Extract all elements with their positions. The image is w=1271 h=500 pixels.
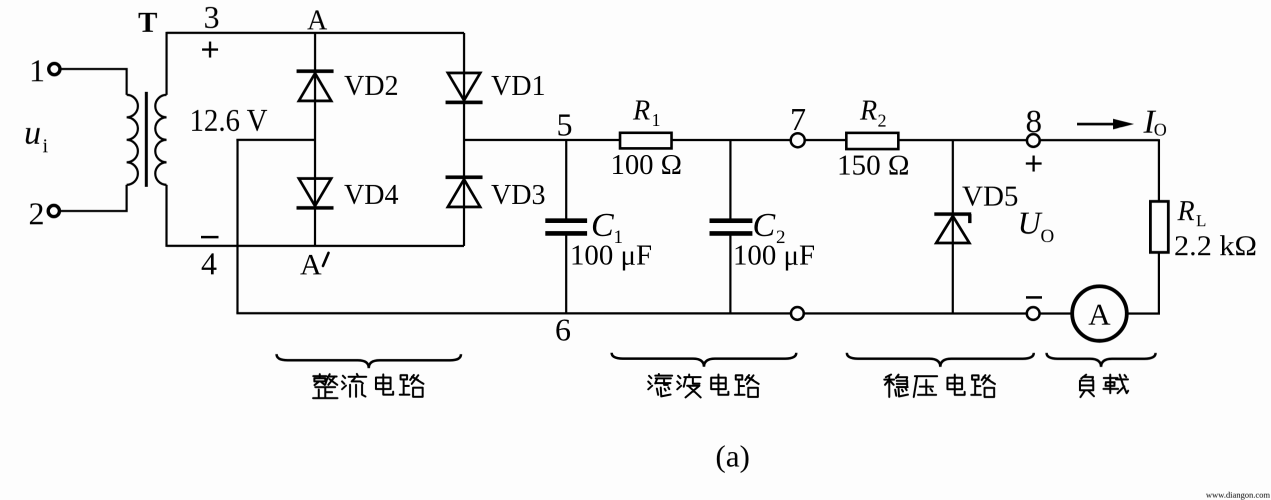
svg-text:A: A — [307, 5, 328, 36]
brace filter section — [612, 353, 797, 367]
wire ammeter to node 8-bottom — [1040, 312, 1073, 314]
svg-text:VD3: VD3 — [491, 180, 545, 211]
wire node 8 to right corner — [1040, 139, 1159, 141]
wire VD2/VD4 junction to left — [236, 139, 315, 141]
svg-text:VD1: VD1 — [491, 71, 545, 102]
label load section (fuzai) — [1080, 375, 1128, 397]
svg-text:U: U — [1018, 205, 1043, 241]
svg-text:150 Ω: 150 Ω — [837, 151, 910, 182]
svg-text:R: R — [1177, 196, 1195, 227]
svg-text:100 Ω: 100 Ω — [611, 150, 683, 181]
wire bridge branch B vertical — [463, 33, 465, 246]
brace regulator section — [847, 353, 1034, 367]
zener diode VD5 — [934, 214, 971, 243]
label filter section (lvbo dianlu) — [648, 374, 758, 397]
svg-text:VD4: VD4 — [344, 180, 398, 211]
svg-text:L: L — [1196, 211, 1206, 230]
brace load section — [1047, 353, 1156, 367]
secondary winding of transformer T — [155, 95, 166, 185]
svg-text:7: 7 — [790, 101, 806, 137]
primary winding of transformer T — [127, 95, 138, 185]
svg-text:www.diangon.com: www.diangon.com — [1206, 490, 1271, 500]
terminal 2 — [48, 205, 59, 216]
svg-text:u: u — [24, 115, 41, 152]
svg-text:3: 3 — [204, 0, 220, 35]
svg-text:100 μF: 100 μF — [570, 240, 652, 271]
svg-text:1: 1 — [29, 52, 45, 88]
svg-text:100 μF: 100 μF — [733, 240, 815, 271]
wire bottom rail 4 to A-prime — [167, 245, 465, 247]
svg-text:O: O — [1041, 226, 1055, 247]
capacitor C2 — [710, 221, 753, 234]
resistor R2 — [846, 133, 898, 149]
svg-text:8: 8 — [1026, 104, 1043, 140]
node 7 bottom circle — [791, 307, 804, 320]
wire secondary left side upper — [165, 32, 167, 95]
diode VD2 — [297, 71, 334, 101]
node 7 circle — [791, 133, 805, 147]
svg-text:2: 2 — [29, 195, 45, 231]
svg-text:6: 6 — [555, 311, 571, 347]
transformer core — [145, 92, 148, 187]
svg-text:5: 5 — [557, 106, 573, 142]
svg-text:A: A — [1088, 297, 1111, 332]
resistor RL — [1150, 201, 1168, 252]
wire secondary left side lower — [165, 185, 167, 247]
wire C1 down to bottom bus — [565, 235, 567, 313]
svg-text:R: R — [859, 96, 877, 127]
diode VD4 — [297, 178, 334, 207]
node 8 circle — [1027, 134, 1040, 147]
wire negative vertical down — [236, 139, 238, 313]
diode VD1 — [446, 73, 483, 102]
wire bottom bus main — [236, 312, 790, 314]
plus sign secondary — [202, 48, 218, 50]
arrow IO — [1077, 123, 1117, 126]
wire R2 to node 8 — [898, 139, 1027, 141]
wire terminal1 to primary — [61, 69, 127, 95]
terminal 1 — [49, 63, 60, 74]
svg-text:VD2: VD2 — [344, 71, 398, 102]
svg-text:C: C — [591, 207, 614, 244]
wire node 7 to R2 — [805, 139, 846, 141]
diode VD3 — [446, 177, 483, 207]
svg-text:i: i — [43, 135, 49, 157]
wire R1 to node 7 — [672, 139, 791, 141]
svg-text:1: 1 — [652, 110, 661, 130]
svg-text:12.6 V: 12.6 V — [190, 102, 268, 138]
svg-text:2: 2 — [878, 111, 887, 131]
wire bottom bus right segment — [804, 312, 1027, 314]
node 8 bottom circle — [1027, 307, 1040, 320]
minus sign output — [1026, 296, 1042, 299]
wire C2 down to bottom bus — [729, 236, 731, 314]
svg-text:R: R — [632, 95, 650, 126]
wire mid rail down to VD5 — [952, 139, 954, 313]
capacitor C1 — [545, 221, 587, 234]
svg-text:T: T — [138, 7, 157, 39]
svg-text:(a): (a) — [715, 439, 749, 474]
svg-text:VD5: VD5 — [962, 181, 1018, 213]
wire primary to terminal 2 — [61, 185, 127, 211]
svg-text:2.2 kΩ: 2.2 kΩ — [1174, 231, 1257, 262]
svg-text:A: A — [300, 248, 322, 281]
svg-text:C: C — [753, 207, 776, 244]
plus sign output — [1026, 162, 1042, 164]
wire node5 down to C1 — [565, 139, 567, 219]
minus sign secondary — [201, 236, 219, 239]
wire bridge branch A vertical — [314, 33, 316, 246]
wire mid rail down to C2 — [729, 139, 731, 219]
wire right corner down to RL — [1158, 139, 1160, 201]
wire RL down to ammeter — [1127, 252, 1159, 313]
label regulator section (wenya dianlu) — [884, 375, 995, 397]
resistor R1 — [620, 133, 672, 149]
svg-text:O: O — [1154, 120, 1167, 140]
svg-text:4: 4 — [201, 245, 217, 281]
wire bridge output to R1 — [464, 139, 620, 141]
brace rectifier section — [277, 354, 461, 368]
ammeter A — [1072, 286, 1127, 341]
label rectifier section (zhengliu dianlu) — [313, 374, 423, 398]
wire secondary top to node 3/A (top rail) — [167, 32, 464, 34]
